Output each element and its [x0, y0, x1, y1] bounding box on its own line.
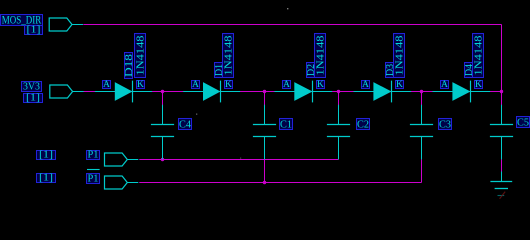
pin K label of D3	[396, 79, 404, 90]
junction main wire / C5 / MOS_DIR	[500, 90, 503, 93]
svg-text:K: K	[225, 79, 232, 90]
svg-text:P1: P1	[88, 148, 99, 160]
label P1	[87, 148, 100, 160]
junction main wire / C1	[263, 90, 266, 93]
label sheet [1] of P1	[37, 149, 56, 160]
svg-text:C3: C3	[439, 119, 451, 130]
svg-text:A: A	[103, 79, 110, 90]
diode D3 1N4148	[354, 81, 412, 103]
grid speck	[287, 8, 288, 9]
svg-text:C4: C4	[179, 119, 192, 130]
svg-text:3V3: 3V3	[23, 80, 40, 92]
label sheet [1] of /P1	[37, 172, 56, 183]
label /P1	[87, 172, 100, 184]
pin A label of D4	[441, 79, 449, 90]
ground	[490, 172, 512, 199]
port MOS_DIR	[49, 18, 72, 31]
designator label D2	[306, 63, 317, 78]
port 3V3	[50, 85, 73, 98]
svg-text:P1: P1	[88, 172, 99, 184]
value label 1N4148 of D18	[135, 34, 147, 78]
wire C5 to ground	[501, 159, 503, 172]
svg-text:C5: C5	[517, 117, 529, 128]
designator label C4	[179, 119, 192, 131]
junction main wire / C2	[337, 90, 340, 93]
svg-text:1N4148: 1N4148	[315, 36, 326, 76]
pin A label of D2	[283, 79, 291, 90]
svg-text:1N4148: 1N4148	[394, 36, 405, 76]
designator label C3	[439, 119, 452, 131]
wire C3 column vertical lower	[421, 159, 423, 182]
junction P1 net / C4	[161, 158, 164, 161]
pin K label of D18	[137, 79, 145, 90]
value label 1N4148 of D3	[394, 34, 406, 78]
junction /P1 net / C1	[263, 181, 266, 184]
designator label D1	[214, 63, 225, 78]
svg-text:[1]: [1]	[39, 149, 53, 160]
label MOS_DIR	[1, 14, 43, 26]
diode D1 1N4148	[183, 81, 240, 103]
wire right vertical	[501, 25, 503, 92]
svg-text:1N4148: 1N4148	[473, 36, 484, 76]
svg-text:A: A	[192, 79, 199, 90]
capacitor C5	[490, 105, 513, 160]
pin A label of D1	[192, 79, 200, 90]
port P1	[105, 153, 128, 166]
pin A label of D3	[362, 79, 370, 90]
capacitor C2	[327, 105, 350, 160]
overline of /P1 label	[87, 169, 100, 171]
capacitor C4	[151, 105, 174, 160]
pin K label of D1	[225, 79, 233, 90]
capacitor C1	[253, 105, 276, 160]
designator label C5	[517, 117, 530, 129]
designator label C2	[357, 119, 370, 131]
pin K label of D4	[475, 79, 483, 90]
svg-text:[1]: [1]	[26, 92, 40, 103]
svg-text:[1]: [1]	[39, 172, 53, 183]
designator label C1	[280, 119, 293, 131]
wire 3V3 to diode chain (main horizontal)	[83, 91, 501, 93]
grid speck	[196, 114, 197, 115]
svg-text:K: K	[475, 79, 482, 90]
svg-text:K: K	[396, 79, 403, 90]
junction main wire / C3	[420, 90, 423, 93]
designator label D4	[464, 63, 475, 78]
grid speck	[240, 158, 241, 159]
svg-text:[1]: [1]	[27, 24, 41, 35]
wire C5 column vertical upper	[501, 92, 503, 106]
label sheet [1] of 3V3	[24, 92, 43, 103]
svg-text:1N4148: 1N4148	[135, 36, 146, 76]
svg-text:D18: D18	[124, 54, 135, 77]
svg-text:1N4148: 1N4148	[223, 36, 234, 76]
designator label D3	[385, 63, 396, 78]
designator label D18	[124, 53, 135, 79]
value label 1N4148 of D1	[223, 34, 235, 78]
wire P1 bottom net	[139, 159, 338, 161]
label sheet [1] of MOS_DIR	[25, 24, 43, 35]
port /P1	[105, 176, 128, 189]
diode D4 1N4148	[433, 81, 491, 103]
diode D2 1N4148	[274, 81, 332, 103]
svg-text:A: A	[362, 79, 369, 90]
svg-text:A: A	[441, 79, 448, 90]
pin K label of D2	[317, 79, 325, 90]
wire C3 column vertical upper	[421, 92, 423, 106]
wire /P1 bottom net	[139, 182, 421, 184]
wire MOS_DIR horizontal top	[83, 24, 501, 26]
svg-text:K: K	[317, 79, 324, 90]
label 3V3	[22, 80, 42, 92]
value label 1N4148 of D4	[473, 34, 485, 78]
capacitor C3	[410, 105, 433, 160]
diode D18 1N4148	[95, 81, 152, 103]
wire C4 column vertical	[162, 92, 164, 106]
wire C1 column vertical lower	[264, 159, 266, 183]
wire C2 column vertical	[338, 92, 340, 106]
svg-text:A: A	[283, 79, 290, 90]
pin A label of D18	[103, 79, 111, 90]
value label 1N4148 of D2	[315, 34, 327, 78]
svg-text:K: K	[137, 79, 144, 90]
svg-text:C1: C1	[280, 119, 292, 130]
svg-text:C2: C2	[357, 119, 369, 130]
junction main wire / C4	[161, 90, 164, 93]
wire C1 column vertical upper	[264, 92, 266, 106]
